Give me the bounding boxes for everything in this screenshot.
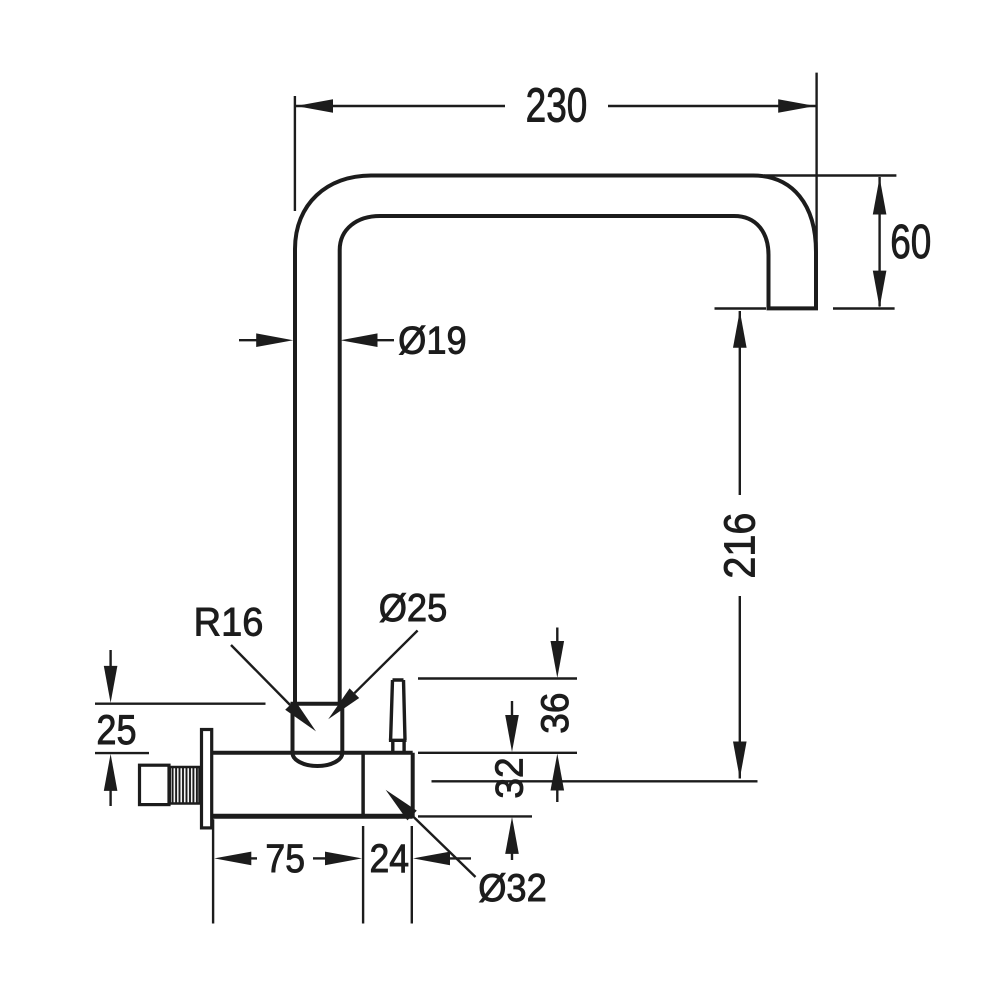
svg-text:60: 60 bbox=[890, 215, 931, 269]
svg-text:25: 25 bbox=[96, 708, 136, 754]
svg-text:75: 75 bbox=[265, 837, 305, 881]
svg-text:Ø32: Ø32 bbox=[478, 866, 547, 909]
svg-text:R16: R16 bbox=[194, 601, 264, 645]
svg-text:216: 216 bbox=[715, 513, 764, 579]
svg-text:36: 36 bbox=[534, 693, 577, 734]
svg-text:Ø19: Ø19 bbox=[398, 318, 467, 361]
svg-text:24: 24 bbox=[369, 837, 409, 881]
svg-text:32: 32 bbox=[488, 757, 531, 798]
svg-text:230: 230 bbox=[526, 79, 588, 133]
svg-text:Ø25: Ø25 bbox=[379, 586, 448, 629]
